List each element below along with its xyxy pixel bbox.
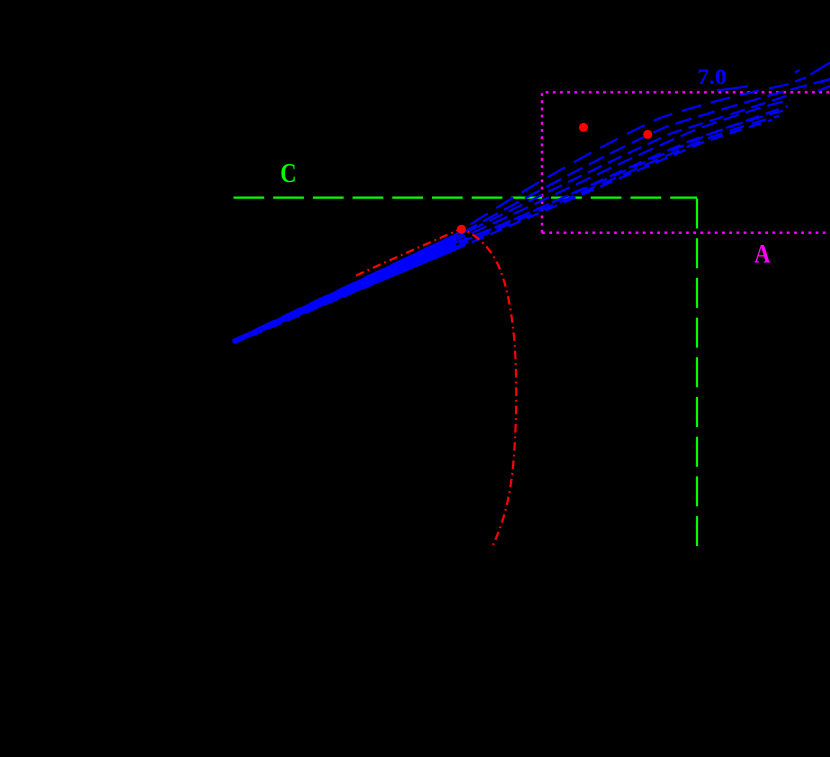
red dot 1 xyxy=(457,225,466,234)
svg-text:C: C xyxy=(280,157,296,188)
svg-text:7.0: 7.0 xyxy=(697,65,727,89)
fan strand 1 (top) xyxy=(233,84,790,340)
corner stub dashes top-right xyxy=(811,63,830,75)
flat dash under 7.0 label xyxy=(717,86,748,90)
fan strand 8 (bottom) xyxy=(234,120,772,343)
green dashed vertical line A xyxy=(696,199,698,547)
fan strand 3 xyxy=(233,94,792,341)
red dot 2 xyxy=(579,123,588,132)
svg-text:A: A xyxy=(754,238,770,268)
fan strand 6 xyxy=(234,110,786,342)
blue solid core of the bundle tail xyxy=(232,234,456,344)
red dash-dot curve xyxy=(356,229,516,547)
red dot 3 xyxy=(643,130,652,139)
magenta dotted box A xyxy=(542,92,830,232)
blue dashed fan of lines xyxy=(233,63,830,344)
fan strand 7 xyxy=(234,116,779,343)
fan strand 4 xyxy=(233,100,790,341)
green dashed horizontal line C xyxy=(234,197,698,199)
fan strand 5 xyxy=(234,106,788,342)
fan strand 2 xyxy=(233,79,830,341)
